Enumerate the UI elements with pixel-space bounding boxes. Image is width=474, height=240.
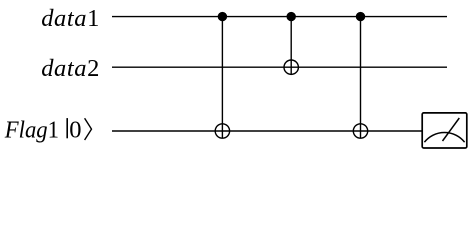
CNOT target CX3 on Flag1 (353, 124, 367, 138)
ket right angle bracket (85, 118, 92, 140)
wire vertical CX3 control-to-target (360, 17, 362, 139)
ket vertical bar (66, 118, 68, 138)
svg-text:data2: data2 (41, 55, 100, 82)
wire vertical CX2 control-to-target (290, 17, 292, 75)
control dot CX1 on data1 (218, 12, 227, 21)
control dot CX3 on data1 (356, 12, 365, 21)
CNOT target CX1 on Flag1 (215, 124, 229, 138)
measurement needle (443, 118, 460, 141)
svg-text:0: 0 (69, 116, 81, 143)
control dot CX2 on data1 (287, 12, 296, 21)
wire q1 data2 (112, 66, 447, 68)
wire q2 Flag1 (112, 130, 422, 132)
svg-text:Flag1: Flag1 (4, 116, 59, 143)
measurement meter arc (424, 133, 464, 143)
svg-text:data1: data1 (41, 5, 100, 32)
CNOT target CX2 on data2 (284, 60, 298, 74)
measurement box (422, 113, 467, 148)
wire q0 data1 (112, 16, 447, 18)
wire vertical CX1 control-to-target (221, 17, 223, 139)
